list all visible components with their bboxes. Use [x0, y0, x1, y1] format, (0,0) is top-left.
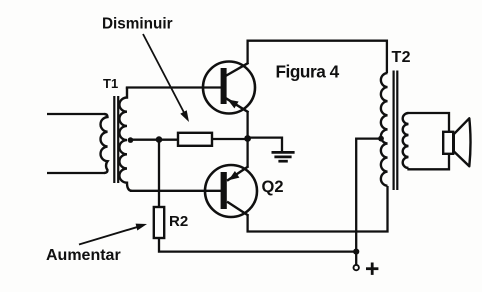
transformer T2 primary winding: [381, 73, 388, 186]
node junction: emitter bus / bias resistor / ground: [244, 135, 251, 142]
wire T1 secondary top lead to Q1 base: [126, 86, 222, 88]
node: T1 center tap terminal: [128, 137, 134, 143]
resistor R2 body: [154, 207, 164, 238]
transformer T2 core: [393, 71, 395, 191]
wire center tap to bias resistor: [131, 139, 179, 141]
wire T2 secondary bottom lead to speaker: [409, 153, 450, 169]
speaker driver box: [443, 132, 453, 154]
wire junction to + terminal: [355, 252, 357, 265]
svg-text:Figura 4: Figura 4: [276, 62, 340, 82]
transistor Q2 emitter lead: [227, 166, 249, 181]
wire emitter node to ground: [248, 138, 282, 152]
wire emitter bus (Q1 emitter to Q2 emitter): [246, 112, 248, 167]
svg-text:T1: T1: [103, 76, 118, 91]
wire R2 bottom to supply rail: [159, 238, 356, 252]
transformer T1 secondary winding: [119, 88, 132, 191]
transistor Q2 body circle: [205, 165, 257, 217]
transistor Q1 collector lead: [226, 63, 249, 76]
node junction: supply rail: [353, 249, 359, 255]
wire Q2 collector to T2 primary bottom: [248, 186, 388, 232]
transistor Q2 collector lead: [227, 202, 249, 216]
wire T1 primary bottom lead: [47, 172, 104, 174]
transistor Q2 base bar: [221, 172, 227, 209]
wire T2 center tap to + supply: [356, 139, 381, 252]
transistor Q1 emitter arrow (PNP): [228, 100, 239, 109]
svg-text:T2: T2: [392, 49, 411, 66]
transistor Q1 emitter lead: [226, 98, 249, 112]
+ terminal (open circle): [354, 265, 359, 270]
transistor Q1 body circle: [203, 62, 255, 114]
svg-text:Q2: Q2: [262, 178, 284, 196]
+ polarity mark: [366, 263, 378, 275]
wire R2 branch vertical: [158, 140, 160, 207]
transistor Q2 emitter arrow (PNP): [229, 171, 240, 180]
ground symbol: [272, 152, 295, 161]
svg-text:R2: R2: [169, 213, 188, 230]
transformer T2 secondary winding: [403, 113, 409, 168]
transistor Q1 base bar: [221, 68, 227, 104]
wire bias resistor to emitter node: [212, 138, 249, 140]
speaker cone: [454, 118, 471, 166]
node: T2 center tap terminal: [378, 136, 384, 142]
wire Q1 collector to top rail and T2 primary top: [248, 41, 387, 73]
wire T1 secondary bottom lead to Q2 base: [130, 190, 222, 192]
svg-text:Disminuir: Disminuir: [102, 16, 173, 33]
bias resistor (Disminuir) body: [178, 133, 212, 146]
transformer T1 core: [113, 96, 115, 183]
transformer T1 primary winding: [101, 114, 108, 173]
annotation arrow Aumentar -> R2: [79, 224, 147, 245]
svg-text:Aumentar: Aumentar: [46, 247, 121, 264]
wire T1 primary top lead: [47, 113, 104, 115]
annotation arrow Disminuir -> bias resistor: [143, 34, 189, 122]
wire T2 secondary top lead to speaker: [409, 113, 450, 132]
node junction: R2 branch on center-tap wire: [156, 136, 163, 143]
